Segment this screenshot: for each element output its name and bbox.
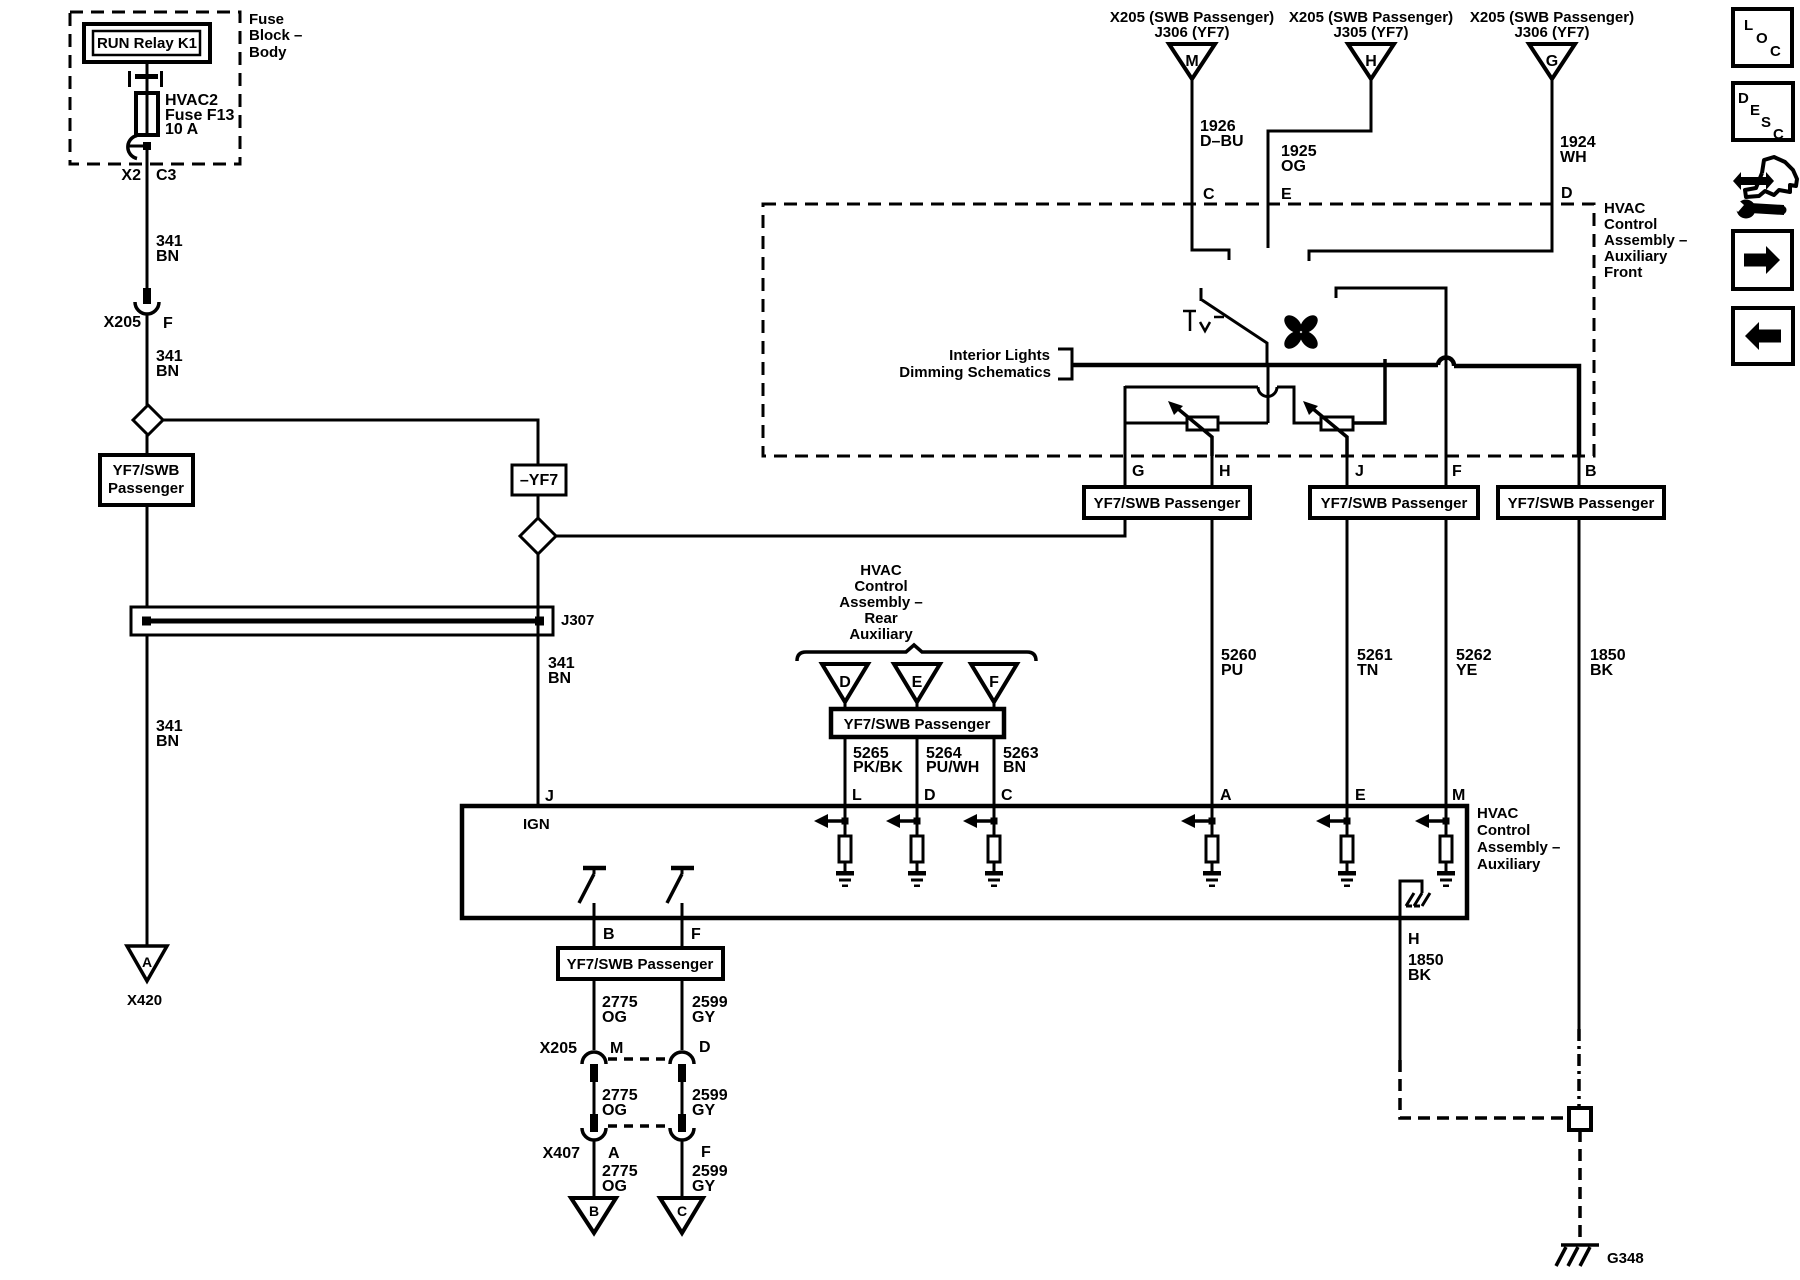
connector triangle M (X205 SWB Passenger J306 YF7) — [1110, 9, 1274, 41]
svg-text:G: G — [1132, 463, 1144, 480]
svg-text:E: E — [912, 674, 923, 691]
wire 2775 OG seg2 — [593, 1082, 596, 1114]
svg-text:GY: GY — [692, 1178, 715, 1195]
connector triangle A / X420 — [127, 946, 167, 981]
svg-text:D: D — [699, 1039, 711, 1056]
wire 2775 OG seg3 — [593, 1140, 596, 1198]
svg-text:B: B — [603, 926, 615, 943]
sidebar forward button — [1733, 231, 1792, 289]
switch pin B inside box — [579, 868, 606, 917]
svg-text:F: F — [989, 674, 999, 691]
inline connector X205 pin F — [143, 288, 151, 304]
svg-text:X205: X205 — [104, 314, 141, 331]
wire down to J pin of HVAC aux box — [537, 554, 540, 806]
dash-dot run from B wire — [1577, 1029, 1581, 1108]
svg-text:YF7/SWB Passenger: YF7/SWB Passenger — [1321, 495, 1468, 512]
svg-text:HVAC: HVAC — [860, 562, 902, 579]
fuse F13 body — [136, 93, 158, 135]
svg-text:E: E — [1281, 186, 1292, 203]
pin letters G H J F B — [1132, 463, 1597, 480]
inline connector X205 pins M D — [540, 1039, 711, 1057]
svg-text:M: M — [1452, 787, 1465, 804]
svg-text:C: C — [677, 1203, 687, 1219]
svg-text:E: E — [1355, 787, 1366, 804]
svg-text:YF7/SWB Passenger: YF7/SWB Passenger — [1094, 495, 1241, 512]
svg-text:Body: Body — [249, 44, 287, 61]
pin letters L D C A E M on top edge — [852, 787, 1465, 804]
harness option box -YF7 — [512, 465, 566, 495]
svg-text:PU/WH: PU/WH — [926, 759, 979, 776]
svg-text:D: D — [839, 674, 851, 691]
IGN label — [523, 816, 550, 833]
svg-text:X205: X205 — [540, 1040, 577, 1057]
svg-text:D–BU: D–BU — [1200, 133, 1244, 150]
svg-text:C: C — [1773, 126, 1784, 143]
svg-text:M: M — [1185, 53, 1198, 70]
harness label YF7/SWB Passenger (B) — [1498, 487, 1664, 518]
G pin wire inside box — [1124, 386, 1127, 456]
wire 5263 BN — [993, 737, 996, 806]
wire label 341 BN — [156, 233, 183, 265]
svg-text:Auxiliary: Auxiliary — [1604, 248, 1668, 265]
svg-text:Passenger: Passenger — [108, 480, 184, 497]
svg-text:C: C — [1770, 43, 1781, 60]
svg-text:HVAC: HVAC — [1604, 200, 1646, 217]
potentiometer R2 (right) — [1321, 417, 1353, 430]
wire 341 BN lower left — [146, 635, 149, 946]
wire 5264 PU/WH — [916, 737, 919, 806]
svg-text:BK: BK — [1408, 967, 1432, 984]
svg-text:BN: BN — [548, 670, 571, 687]
svg-text:RUN Relay K1: RUN Relay K1 — [97, 35, 197, 52]
resistor unit pin M — [1415, 806, 1455, 887]
svg-text:F: F — [691, 926, 701, 943]
svg-text:C3: C3 — [156, 167, 177, 184]
svg-text:L: L — [852, 787, 862, 804]
svg-text:BN: BN — [1003, 759, 1026, 776]
HVAC control assembly auxiliary front dashed box — [763, 204, 1594, 456]
wire switch to potentiometer junction — [1267, 365, 1270, 423]
svg-text:GY: GY — [692, 1009, 715, 1026]
svg-text:Interior Lights: Interior Lights — [949, 347, 1050, 364]
svg-text:Assembly –: Assembly – — [1477, 839, 1560, 856]
svg-text:G348: G348 — [1607, 1250, 1644, 1267]
svg-text:Assembly –: Assembly – — [839, 594, 922, 611]
sidebar back button — [1733, 308, 1793, 364]
svg-text:D: D — [1738, 90, 1749, 107]
wire 1926 D-BU — [1192, 79, 1229, 260]
svg-text:GY: GY — [692, 1102, 715, 1119]
svg-text:Rear: Rear — [864, 610, 898, 627]
wire relay to fuse — [146, 62, 149, 93]
svg-text:H: H — [1365, 53, 1377, 70]
svg-text:WH: WH — [1560, 149, 1587, 166]
svg-text:YE: YE — [1456, 662, 1478, 679]
inline connector X407 pins A F — [590, 1114, 598, 1132]
harness label YF7/SWB Passenger (left) — [100, 455, 193, 505]
svg-text:Control: Control — [854, 578, 907, 595]
svg-text:F: F — [701, 1144, 711, 1161]
fuse block label — [249, 11, 302, 61]
wires B F down to label box — [594, 917, 682, 948]
svg-text:J: J — [545, 788, 554, 805]
svg-text:Dimming Schematics: Dimming Schematics — [899, 364, 1051, 381]
wire 2599 GY seg2 — [681, 1082, 684, 1114]
harness label YF7/SWB Passenger (G H) — [1084, 487, 1250, 518]
svg-text:X2: X2 — [121, 167, 141, 184]
svg-text:S: S — [1761, 114, 1771, 131]
switch (dimmer) — [1200, 288, 1203, 301]
svg-text:–YF7: –YF7 — [520, 472, 558, 489]
svg-text:J306 (YF7): J306 (YF7) — [1514, 24, 1589, 41]
wire 5265 PK/BK — [844, 737, 847, 806]
svg-text:HVAC: HVAC — [1477, 805, 1519, 822]
svg-text:X407: X407 — [543, 1145, 580, 1162]
wire 5262 YE (F pin to M) — [1445, 456, 1448, 806]
svg-text:Auxiliary: Auxiliary — [849, 626, 913, 643]
resistor unit pin D — [886, 806, 926, 887]
resistor unit pin E — [1316, 806, 1356, 887]
wire 1850 BK from pin H — [1399, 917, 1402, 1060]
svg-text:YF7/SWB Passenger: YF7/SWB Passenger — [567, 956, 714, 973]
svg-text:A: A — [1220, 787, 1232, 804]
svg-text:J307: J307 — [561, 612, 594, 629]
switch pin F inside box — [667, 868, 694, 917]
svg-text:H: H — [1219, 463, 1231, 480]
connector triangle C (bottom) — [660, 1198, 703, 1233]
ground G348 — [1561, 1243, 1599, 1247]
svg-text:D: D — [1561, 185, 1573, 202]
svg-text:E: E — [1750, 102, 1760, 119]
svg-text:M: M — [610, 1040, 623, 1057]
wire splice to -YF7 — [163, 420, 538, 465]
svg-text:D: D — [924, 787, 936, 804]
svg-text:Fuse: Fuse — [249, 11, 284, 28]
resistor unit pin C — [963, 806, 1003, 887]
harness label YF7/SWB Passenger (J F) — [1310, 487, 1478, 518]
svg-text:10 A: 10 A — [165, 121, 199, 138]
wire 5260 PU (H pin to A) — [1211, 456, 1214, 806]
connector triangle H (X205 SWB Passenger J305 YF7) — [1289, 9, 1453, 41]
wire 2599 GY seg3 — [681, 1140, 684, 1198]
svg-text:Control: Control — [1604, 216, 1657, 233]
wire 1924 WH — [1309, 79, 1552, 261]
wire splice to G pin run — [556, 518, 1125, 536]
svg-text:Front: Front — [1604, 264, 1642, 281]
svg-text:IGN: IGN — [523, 816, 550, 833]
wire splice to label box — [146, 435, 149, 455]
svg-text:Control: Control — [1477, 822, 1530, 839]
harness label YF7/SWB Passenger (rear aux) — [845, 702, 994, 709]
wire G pin through label box — [1124, 456, 1127, 536]
relay RUN Relay K1 — [84, 24, 210, 62]
svg-text:A: A — [608, 1145, 620, 1162]
svg-text:X420: X420 — [127, 992, 162, 1009]
harness label YF7/SWB Passenger (bottom) — [558, 948, 723, 979]
sidebar DESC button — [1733, 83, 1793, 140]
connector triangle B (bottom) — [571, 1198, 616, 1233]
svg-text:B: B — [589, 1203, 599, 1219]
svg-text:L: L — [1744, 17, 1753, 34]
resistor unit pin L — [814, 806, 854, 887]
svg-text:PU: PU — [1221, 662, 1243, 679]
connector triangle E (rear aux) — [894, 664, 940, 702]
svg-text:C: C — [1001, 787, 1013, 804]
connector triangle D (rear aux) — [822, 664, 868, 702]
svg-text:F: F — [163, 315, 173, 332]
svg-text:OG: OG — [602, 1009, 627, 1026]
fuse label HVAC2 Fuse F13 10 A — [165, 92, 234, 138]
svg-text:Assembly –: Assembly – — [1604, 232, 1687, 249]
splice diamond under -YF7 — [520, 518, 556, 554]
blower fan symbol — [1281, 312, 1321, 352]
svg-text:A: A — [142, 954, 152, 970]
svg-text:OG: OG — [1281, 158, 1306, 175]
svg-text:G: G — [1546, 53, 1558, 70]
svg-text:O: O — [1756, 30, 1768, 47]
svg-text:B: B — [1585, 463, 1597, 480]
fan circuit hook wire to pin F — [1336, 288, 1446, 456]
svg-text:J305 (YF7): J305 (YF7) — [1333, 24, 1408, 41]
svg-text:BN: BN — [156, 733, 179, 750]
svg-text:F: F — [1452, 463, 1462, 480]
wire 1850 BK (B pin) — [1578, 456, 1581, 1029]
svg-text:OG: OG — [602, 1178, 627, 1195]
wire 341 BN to splice — [146, 314, 149, 405]
pin J label — [545, 788, 554, 805]
fuse lower terminal hook — [128, 136, 137, 159]
wire 1925 OG — [1268, 79, 1371, 248]
interior lights dimming schematics label and bracket — [899, 347, 1051, 381]
sidebar schematic icon (arrows and wrench) — [1727, 157, 1797, 219]
ground splice block — [1569, 1108, 1591, 1130]
dashed ground run from H — [1400, 1060, 1569, 1118]
svg-text:J306 (YF7): J306 (YF7) — [1154, 24, 1229, 41]
pin letters B F under box — [603, 926, 701, 943]
relay terminal clip — [130, 71, 162, 87]
svg-text:YF7/SWB: YF7/SWB — [113, 462, 180, 479]
wire 2599 GY seg1 — [681, 979, 684, 1050]
sidebar LOC button — [1733, 9, 1792, 66]
internal chassis ground to pin H — [1400, 881, 1422, 917]
svg-text:OG: OG — [602, 1102, 627, 1119]
resistor unit pin A — [1181, 806, 1221, 887]
dashed run to G348 — [1578, 1130, 1582, 1243]
wire -YF7 to splice — [537, 495, 540, 518]
connector X2 C3 labels — [121, 167, 176, 184]
svg-text:J: J — [1355, 463, 1364, 480]
svg-text:PK/BK: PK/BK — [853, 759, 903, 776]
svg-text:TN: TN — [1357, 662, 1378, 679]
wire 341 BN upper — [146, 146, 149, 288]
wire 5261 TN (J pin to E) — [1346, 456, 1349, 806]
connector triangle F (rear aux) — [971, 664, 1017, 702]
rear auxiliary callout HVAC Control Assembly Rear Auxiliary — [839, 562, 922, 643]
splice pack J307 — [131, 607, 553, 635]
brace — [797, 645, 1036, 661]
svg-text:H: H — [1408, 931, 1420, 948]
svg-text:YF7/SWB Passenger: YF7/SWB Passenger — [844, 716, 991, 733]
svg-text:YF7/SWB Passenger: YF7/SWB Passenger — [1508, 495, 1655, 512]
wire 2775 OG seg1 — [593, 979, 596, 1050]
svg-text:C: C — [1203, 186, 1215, 203]
svg-text:BK: BK — [1590, 662, 1614, 679]
svg-text:BN: BN — [156, 363, 179, 380]
svg-text:BN: BN — [156, 248, 179, 265]
HVAC control assembly auxiliary box — [462, 806, 1467, 918]
svg-text:Auxiliary: Auxiliary — [1477, 856, 1541, 873]
splice diamond S — [133, 405, 163, 435]
dimming feed line — [1073, 363, 1438, 368]
wire to J307 — [146, 505, 149, 607]
fuse block - body dashed enclosure — [70, 12, 240, 164]
potentiometer branch from G — [1125, 386, 1258, 389]
potentiometer R1 (left) — [1125, 422, 1187, 425]
connector triangle G (X205 SWB Passenger J306 YF7) — [1470, 9, 1634, 41]
svg-text:Block –: Block – — [249, 27, 302, 44]
